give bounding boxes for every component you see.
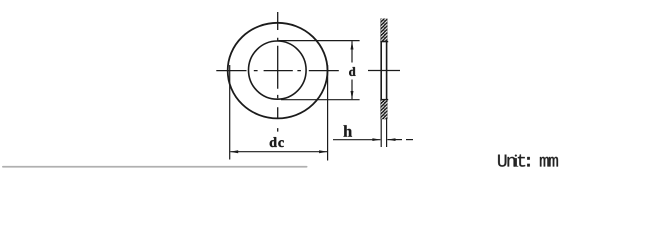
d dimension bottom arrowhead <box>351 91 354 99</box>
dc dimension line <box>230 151 327 153</box>
h dimension right extension line below side view <box>386 119 388 147</box>
h leader line <box>333 139 380 141</box>
side view horizontal centerline <box>368 70 400 72</box>
dc dimension right extension line <box>327 65 329 161</box>
side view lower hatched section <box>381 99 388 119</box>
horizontal centerline of front view <box>216 70 338 72</box>
h right arrowhead <box>387 138 395 141</box>
d dimension top extension line <box>279 40 360 42</box>
dc dimension left extension line <box>229 65 231 160</box>
d dimension top arrowhead <box>351 41 354 49</box>
grey divider line bottom left <box>2 166 308 168</box>
d dimension line upper segment <box>351 41 353 62</box>
label h <box>344 125 353 136</box>
side view body outline <box>381 19 386 118</box>
d dimension bottom extension line <box>281 99 360 101</box>
h right arrow segment <box>387 139 402 141</box>
side view hole top edge <box>380 41 388 43</box>
unit annotation text <box>498 155 558 167</box>
h dash after right arrow <box>406 139 413 141</box>
h dimension left extension line below side view <box>380 119 382 147</box>
h left arrowhead <box>372 138 380 141</box>
washer front view outer circle (dc) <box>228 23 328 119</box>
vertical centerline of front view <box>277 12 279 132</box>
dc dimension left arrowhead <box>230 150 238 153</box>
label d <box>349 67 355 76</box>
side view hole bottom edge <box>380 99 388 101</box>
washer front view inner circle (hole d) <box>248 41 306 99</box>
side view upper hatched section <box>381 19 388 42</box>
label dc <box>270 137 284 147</box>
d dimension line lower segment <box>351 80 353 100</box>
dc dimension right arrowhead <box>319 150 327 153</box>
